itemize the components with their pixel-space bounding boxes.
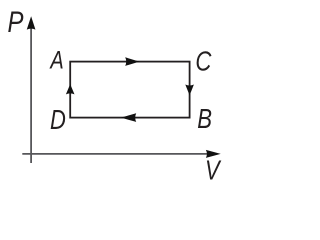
- svg-text:A: A: [49, 46, 64, 74]
- arrow C to B (right edge, downward): [185, 85, 194, 96]
- V axis (horizontal): [22, 153, 207, 155]
- P axis arrowhead: [27, 16, 36, 29]
- svg-text:V: V: [205, 155, 222, 186]
- svg-text:D: D: [50, 105, 66, 136]
- svg-text:B: B: [197, 104, 212, 135]
- cycle rectangle A-C-B-D: [70, 62, 189, 118]
- arrow B to D (bottom edge, leftward): [121, 113, 136, 122]
- P axis (vertical): [30, 28, 32, 163]
- arrow D to A (left edge, upward): [66, 84, 75, 94]
- arrow A to C (top edge, rightward): [125, 57, 139, 66]
- V axis arrowhead: [206, 150, 221, 158]
- svg-text:P: P: [8, 4, 24, 38]
- svg-text:C: C: [195, 46, 212, 77]
